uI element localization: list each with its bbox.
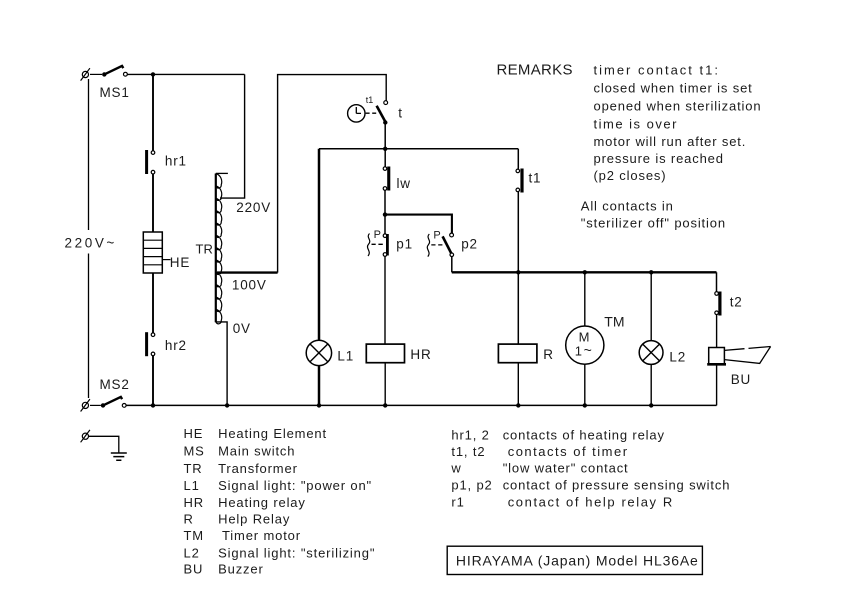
switch t (timer contact) bbox=[377, 101, 388, 125]
svg-text:All contacts in: All contacts in bbox=[581, 199, 674, 214]
svg-text:Signal light: "power on": Signal light: "power on" bbox=[218, 478, 372, 493]
wire: L2 to bottom rail bbox=[650, 364, 652, 405]
svg-text:TR: TR bbox=[184, 461, 203, 476]
svg-text:220V~: 220V~ bbox=[65, 236, 117, 251]
svg-text:Heating relay: Heating relay bbox=[218, 495, 306, 510]
svg-text:0V: 0V bbox=[233, 321, 251, 336]
svg-text:MS2: MS2 bbox=[100, 377, 130, 392]
heating element HE bbox=[143, 232, 170, 273]
svg-text:time is over: time is over bbox=[594, 117, 678, 132]
svg-text:HE: HE bbox=[170, 255, 190, 270]
switch MS2 bbox=[90, 397, 126, 408]
svg-text:p1: p1 bbox=[396, 236, 413, 251]
svg-text:MS1: MS1 bbox=[100, 85, 130, 100]
motor TM bbox=[566, 326, 604, 364]
svg-text:R: R bbox=[543, 347, 554, 362]
svg-text:Main switch: Main switch bbox=[218, 444, 295, 459]
svg-text:contacts of timer: contacts of timer bbox=[508, 444, 629, 459]
svg-text:BU: BU bbox=[184, 562, 204, 577]
svg-text:R: R bbox=[184, 512, 194, 527]
svg-text:HIRAYAMA (Japan) Model HL36Ae: HIRAYAMA (Japan) Model HL36Ae bbox=[456, 553, 699, 569]
squiggle: mains lead-in bottom bbox=[82, 402, 88, 408]
timer clock symbol bbox=[348, 105, 377, 122]
transformer TR winding scallops bbox=[216, 174, 222, 324]
svg-text:HE: HE bbox=[184, 426, 204, 441]
relay coil R bbox=[498, 344, 537, 363]
node: L2 branch on bottom rail bbox=[649, 403, 653, 407]
wire: left mains rail 220V~ lower segment bbox=[88, 254, 90, 399]
contact hr1 bbox=[145, 150, 155, 174]
wire: TM branch down bbox=[584, 272, 586, 326]
svg-text:contact of help relay R: contact of help relay R bbox=[508, 495, 674, 510]
node: HR branch on bottom rail bbox=[383, 403, 387, 407]
wire: p-node down to p1 bbox=[384, 215, 386, 234]
svg-text:hr2: hr2 bbox=[165, 338, 187, 353]
wire: hr2 down to bottom rail bbox=[152, 356, 154, 406]
svg-text:opened when sterilization: opened when sterilization bbox=[594, 99, 762, 114]
wire: L2 branch down bbox=[650, 272, 652, 340]
wire: p1 down to relay HR bbox=[384, 256, 386, 344]
node: TM branch on bottom rail bbox=[583, 403, 587, 407]
wire: heater branch down to hr1 bbox=[152, 74, 154, 150]
pressure actuator squiggle p1 bbox=[367, 234, 369, 257]
remarks text block bbox=[594, 63, 762, 183]
node: R branch on bottom rail bbox=[516, 403, 520, 407]
svg-text:r1: r1 bbox=[451, 495, 464, 510]
wire: node down to lw bbox=[384, 149, 386, 167]
wire: left mains rail 220V~ upper segment bbox=[88, 79, 90, 230]
svg-text:hr1: hr1 bbox=[165, 153, 187, 168]
wire: p2 down to AC bus bbox=[451, 257, 453, 273]
svg-text:w: w bbox=[450, 461, 461, 476]
svg-text:L2: L2 bbox=[669, 349, 686, 364]
svg-text:t1: t1 bbox=[529, 171, 542, 186]
wire: 0V tap down to bottom rail bbox=[216, 322, 227, 406]
wire: across to p2 then down bbox=[385, 215, 452, 233]
svg-text:t: t bbox=[398, 106, 403, 121]
wire: transformer top stub bbox=[216, 172, 228, 174]
svg-text:closed when timer is set: closed when timer is set bbox=[594, 81, 753, 96]
wire: top rail from MS1 to 220V tap corner bbox=[127, 73, 244, 75]
buzzer BU bbox=[707, 347, 770, 365]
wire: t1 contact down to relay R bbox=[517, 192, 519, 344]
switch p2 bbox=[443, 233, 454, 257]
wire: HR coil to bottom rail bbox=[384, 363, 386, 406]
svg-text:L1: L1 bbox=[184, 478, 200, 493]
contact hr2 bbox=[145, 332, 155, 356]
svg-text:MS: MS bbox=[184, 444, 205, 459]
wire: R coil to bottom rail bbox=[517, 363, 519, 406]
squiggle: mains lead-in top bbox=[82, 71, 88, 77]
wire: t1 contact branch down from node line bbox=[517, 149, 519, 169]
svg-text:motor will run after set.: motor will run after set. bbox=[594, 134, 747, 149]
wire: heating element to hr2 bbox=[152, 273, 154, 333]
svg-text:t2: t2 bbox=[730, 295, 743, 310]
wire: lamp L1 to bottom rail bbox=[318, 366, 321, 406]
svg-text:HR: HR bbox=[184, 495, 204, 510]
svg-text:"sterilizer off" position: "sterilizer off" position bbox=[581, 216, 726, 231]
node: heater branch on bottom rail bbox=[151, 403, 155, 407]
svg-text:Heating Element: Heating Element bbox=[218, 426, 327, 441]
wire: TM to bottom rail bbox=[584, 364, 586, 405]
svg-text:Buzzer: Buzzer bbox=[218, 562, 264, 577]
svg-text:220V: 220V bbox=[236, 200, 271, 215]
node: junction under timer contact bbox=[383, 147, 387, 151]
svg-text:L2: L2 bbox=[184, 545, 200, 560]
wire: bus corner down to t2 bbox=[716, 272, 718, 291]
svg-text:Signal light: "sterilizing": Signal light: "sterilizing" bbox=[218, 545, 375, 560]
wire: 100V tap bbox=[217, 271, 278, 273]
wire: t down to node bbox=[384, 123, 386, 149]
svg-text:TM: TM bbox=[184, 528, 204, 543]
svg-text:t1, t2: t1, t2 bbox=[451, 444, 485, 459]
dashed link p1 bbox=[372, 243, 383, 245]
wire: bottom rail bbox=[126, 404, 717, 406]
node: L1 branch on bottom rail bbox=[317, 403, 321, 407]
dashed link p2 bbox=[431, 244, 442, 246]
svg-text:p1, p2: p1, p2 bbox=[451, 478, 492, 493]
svg-text:t1: t1 bbox=[366, 95, 374, 105]
contact p1 bbox=[383, 234, 389, 256]
lamp L2 bbox=[639, 341, 663, 365]
wire: buzzer to bottom rail bbox=[716, 364, 718, 405]
wire: 220V tap hook (rail corner down to transformer top) bbox=[220, 74, 245, 198]
pressure actuator squiggle p2 bbox=[427, 234, 429, 257]
node: t1 branch on AC bus bbox=[516, 270, 520, 274]
svg-text:timer contact t1:: timer contact t1: bbox=[594, 63, 720, 78]
contact t2 bbox=[715, 292, 722, 316]
wire: hr1 to heating element bbox=[152, 174, 154, 232]
contact lw bbox=[383, 167, 390, 191]
wire: thick bus to TM / L2 / t2 bbox=[452, 271, 717, 273]
svg-text:contact of pressure sensing sw: contact of pressure sensing switch bbox=[503, 478, 731, 493]
node: junction at top of heater branch bbox=[151, 72, 155, 76]
wire: lw to p-node bbox=[384, 190, 386, 214]
svg-text:lw: lw bbox=[397, 176, 411, 191]
legend left column bbox=[184, 426, 376, 577]
contact t1 bbox=[516, 169, 524, 193]
node: 0V branch on bottom rail bbox=[225, 403, 229, 407]
svg-text:100V: 100V bbox=[232, 278, 267, 293]
svg-text:hr1, 2: hr1, 2 bbox=[451, 428, 489, 443]
model box bbox=[447, 546, 702, 574]
svg-text:TM: TM bbox=[604, 314, 624, 330]
wire: t2 down to buzzer bbox=[716, 315, 718, 348]
svg-text:contacts of heating relay: contacts of heating relay bbox=[503, 428, 665, 443]
ground bbox=[81, 430, 127, 460]
svg-text:1: 1 bbox=[575, 344, 582, 359]
svg-text:pressure is reached: pressure is reached bbox=[594, 151, 724, 166]
svg-text:Help Relay: Help Relay bbox=[218, 512, 290, 527]
wire: lamp L1 branch down bbox=[318, 149, 321, 340]
svg-text:TR: TR bbox=[196, 242, 213, 257]
node: junction above p1 bbox=[383, 212, 387, 216]
remarks note block bbox=[581, 199, 726, 231]
svg-text:P: P bbox=[374, 229, 381, 241]
node: L2 branch on AC bus bbox=[649, 270, 653, 274]
svg-text:~: ~ bbox=[584, 342, 592, 358]
node: TM branch on AC bus bbox=[583, 270, 587, 274]
svg-text:P: P bbox=[433, 230, 440, 242]
svg-text:p2: p2 bbox=[461, 236, 478, 251]
wire: horizontal node line L1 branch to t1 contact branch bbox=[319, 148, 518, 150]
lamp L1 bbox=[306, 340, 331, 365]
svg-text:HR: HR bbox=[410, 347, 431, 362]
svg-text:Timer motor: Timer motor bbox=[222, 528, 301, 543]
svg-text:(p2 closes): (p2 closes) bbox=[594, 168, 667, 183]
transformer TR core conductor bbox=[215, 174, 217, 323]
relay coil HR bbox=[366, 344, 404, 363]
wire: 100V riser up and over to timer contact t bbox=[278, 75, 387, 273]
svg-text:"low water" contact: "low water" contact bbox=[503, 461, 629, 476]
svg-text:L1: L1 bbox=[337, 349, 354, 364]
svg-text:BU: BU bbox=[731, 372, 751, 387]
switch MS1 bbox=[90, 66, 127, 77]
svg-text:Transformer: Transformer bbox=[218, 461, 298, 476]
svg-text:REMARKS: REMARKS bbox=[497, 62, 573, 79]
legend right column bbox=[450, 428, 730, 510]
